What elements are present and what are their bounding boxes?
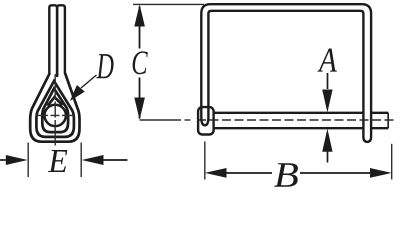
shaft centerline dash segment [185, 119, 191, 121]
B dimension line right segment [300, 172, 370, 174]
A leader line lower [327, 152, 329, 163]
middle coil outline [36, 81, 74, 137]
C lower arrow (down) [134, 98, 145, 120]
E right arrow tail [104, 159, 128, 161]
wire crossing chevron above pin [48, 97, 61, 105]
C top extension line [133, 3, 204, 5]
label D [96, 54, 113, 78]
pin shaft bottom line [215, 127, 389, 129]
label A [317, 48, 337, 71]
vertical centerline of circle [54, 74, 56, 146]
pin cross-section circle [45, 105, 66, 126]
inner coil outline [42, 89, 68, 133]
white mask where wire crosses shaft [365, 111, 371, 130]
E left extension line [27, 143, 29, 178]
outer coil outline [30, 74, 79, 142]
B right extension line [391, 144, 393, 180]
square wire body (side view) [201, 4, 371, 142]
label C [133, 51, 148, 74]
C upper arrow (up) [134, 4, 145, 26]
A upper arrow (down) [322, 90, 332, 113]
C dimension line lower segment [139, 78, 141, 119]
E right extension line [80, 143, 82, 178]
pin shaft top line [215, 112, 389, 114]
B right arrow [370, 168, 392, 178]
shaft centerline dash-dot [197, 119, 397, 121]
keeper sleeve on shaft [198, 107, 214, 134]
leader line for D [81, 75, 97, 88]
stem wire right (end view handle) [57, 5, 65, 76]
E dimension right arrow [82, 155, 104, 165]
B left arrow [205, 168, 227, 178]
E dimension left arrow [6, 155, 28, 165]
A leader line upper [327, 73, 329, 89]
C dimension line upper segment [139, 7, 141, 49]
shaft centerline solid segment from C [140, 119, 181, 121]
label B [274, 163, 298, 187]
pin shaft end cap [387, 113, 389, 128]
A lower arrow (up) [322, 129, 332, 152]
stem wire left (end view handle) [49, 5, 57, 76]
B dimension line left segment [225, 172, 272, 174]
E left arrow tail [0, 159, 6, 161]
label E [48, 150, 67, 172]
arrowhead of D leader [70, 85, 85, 101]
B left extension line [204, 142, 206, 180]
horizontal centerline of circle [36, 114, 75, 116]
